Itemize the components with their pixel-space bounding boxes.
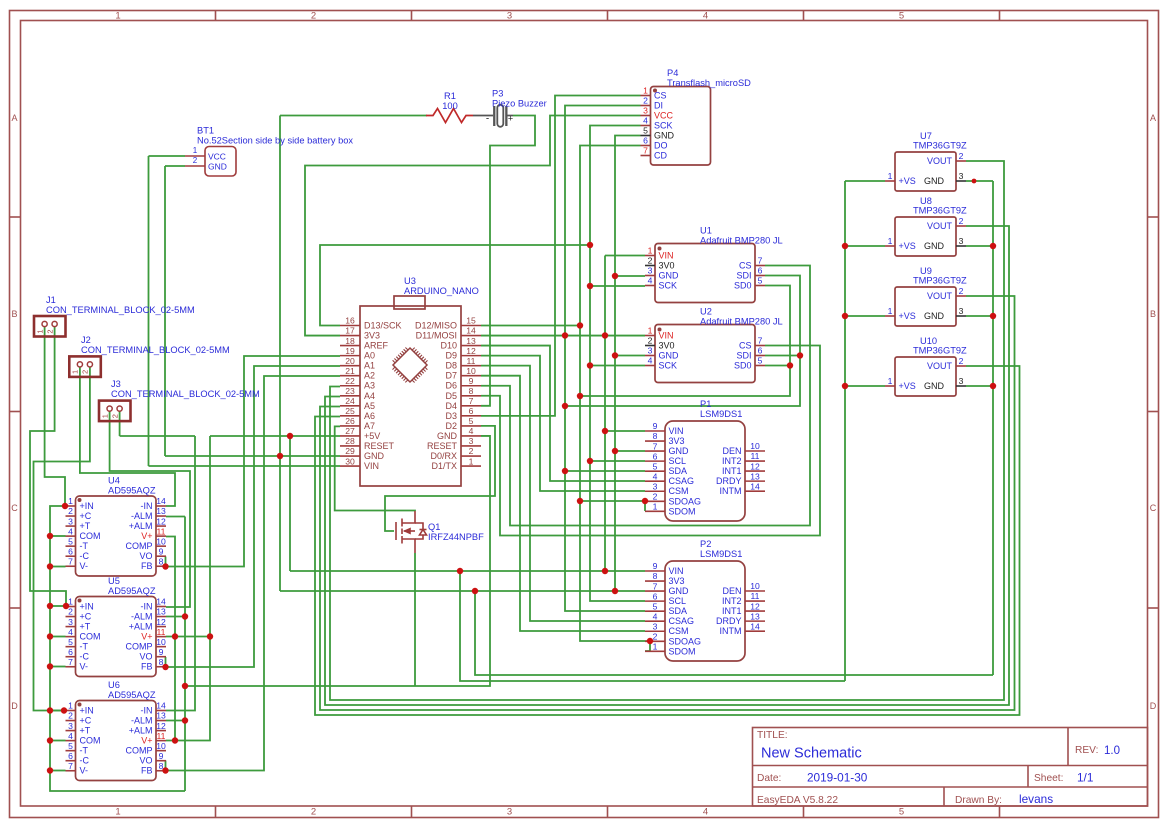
junction bbox=[842, 243, 848, 249]
svg-text:10: 10 bbox=[466, 366, 476, 376]
P2 LSM9DS1 body bbox=[665, 561, 745, 661]
U2 pin 6 SDI bbox=[755, 355, 765, 357]
junction bbox=[162, 563, 168, 569]
svg-text:3: 3 bbox=[469, 436, 474, 446]
svg-text:INT2: INT2 bbox=[722, 596, 742, 606]
svg-text:D5: D5 bbox=[445, 391, 457, 401]
svg-text:2: 2 bbox=[643, 96, 648, 106]
svg-text:LSM9DS1: LSM9DS1 bbox=[700, 409, 742, 419]
U4 pin 3 +T bbox=[66, 525, 76, 527]
svg-text:11: 11 bbox=[157, 731, 166, 741]
U6 pin 8 FB bbox=[156, 770, 166, 772]
P2 pin 5 SDA bbox=[645, 610, 665, 612]
svg-text:DEN: DEN bbox=[722, 586, 741, 596]
svg-text:12: 12 bbox=[750, 461, 760, 471]
svg-text:12: 12 bbox=[156, 617, 166, 627]
wire GND row to P2.GND bbox=[280, 590, 645, 592]
svg-text:U6: U6 bbox=[108, 680, 120, 690]
svg-text:6: 6 bbox=[758, 346, 763, 356]
wire U2.SD0 tap bbox=[765, 365, 790, 367]
svg-text:FB: FB bbox=[141, 662, 153, 672]
U3 pin 29 GND bbox=[340, 455, 360, 457]
svg-text:4: 4 bbox=[648, 356, 653, 366]
U3 pin 10 D7 bbox=[461, 375, 481, 377]
wire V+ bus bbox=[166, 537, 175, 741]
junction bbox=[182, 683, 188, 689]
svg-text:+ALM: +ALM bbox=[129, 622, 153, 632]
svg-text:A4: A4 bbox=[364, 391, 375, 401]
svg-text:AD595AQZ: AD595AQZ bbox=[108, 690, 156, 700]
U5 pin 5 -T bbox=[66, 646, 76, 648]
svg-text:12: 12 bbox=[156, 516, 166, 526]
svg-text:2: 2 bbox=[648, 336, 653, 346]
U3 pin 24 A5 bbox=[340, 405, 360, 407]
svg-text:CS: CS bbox=[739, 261, 752, 271]
svg-text:P2: P2 bbox=[700, 539, 711, 549]
U1 pin 6 SDI bbox=[755, 275, 765, 277]
svg-text:6: 6 bbox=[643, 136, 648, 146]
svg-text:+IN: +IN bbox=[80, 602, 94, 612]
svg-text:4: 4 bbox=[653, 611, 658, 621]
svg-text:1: 1 bbox=[653, 502, 658, 512]
svg-text:GND: GND bbox=[924, 381, 945, 391]
U3 pin 19 A0 bbox=[340, 355, 360, 357]
svg-text:Adafruit BMP280 JL: Adafruit BMP280 JL bbox=[700, 317, 783, 327]
svg-text:+VS: +VS bbox=[899, 241, 916, 251]
svg-text:2: 2 bbox=[959, 216, 964, 226]
svg-text:INT2: INT2 bbox=[722, 456, 742, 466]
junction bbox=[612, 352, 618, 358]
U3 usb connector rect bbox=[394, 296, 425, 309]
U4 pin 13 -ALM bbox=[156, 515, 166, 517]
wire D9 to P1.CSM bbox=[481, 356, 645, 491]
svg-text:GND: GND bbox=[659, 271, 680, 281]
svg-text:D2: D2 bbox=[445, 421, 457, 431]
wire U1.VIN tap bbox=[605, 255, 645, 257]
svg-text:2: 2 bbox=[311, 11, 316, 22]
svg-text:11: 11 bbox=[751, 591, 760, 601]
svg-text:SDOAG: SDOAG bbox=[669, 636, 702, 646]
svg-text:13: 13 bbox=[156, 711, 166, 721]
svg-text:RESET: RESET bbox=[364, 441, 395, 451]
wire J3.1 to U5.-IN bbox=[110, 411, 190, 607]
svg-text:11: 11 bbox=[157, 526, 166, 536]
svg-text:DI: DI bbox=[654, 101, 663, 111]
svg-text:2: 2 bbox=[45, 329, 54, 333]
svg-text:LSM9DS1: LSM9DS1 bbox=[700, 549, 742, 559]
svg-text:+5V: +5V bbox=[364, 431, 380, 441]
P2 pin 14 INTM bbox=[745, 630, 765, 632]
svg-text:CS: CS bbox=[739, 341, 752, 351]
svg-text:GND: GND bbox=[659, 351, 680, 361]
svg-text:D13/SCK: D13/SCK bbox=[364, 321, 402, 331]
svg-text:17: 17 bbox=[345, 326, 355, 336]
svg-text:16: 16 bbox=[345, 316, 355, 326]
svg-text:A0: A0 bbox=[364, 351, 375, 361]
U3 pin 8 D5 bbox=[461, 395, 481, 397]
junction bbox=[457, 568, 463, 574]
svg-text:SDI: SDI bbox=[736, 351, 751, 361]
junction bbox=[182, 613, 188, 619]
wire +5V branch down bbox=[289, 436, 291, 571]
svg-text:-T: -T bbox=[80, 541, 89, 551]
svg-text:U7: U7 bbox=[920, 131, 932, 141]
U9 pin 3 GND bbox=[956, 315, 966, 317]
svg-text:D11/MOSI: D11/MOSI bbox=[416, 331, 457, 341]
svg-text:3: 3 bbox=[648, 346, 653, 356]
svg-text:7: 7 bbox=[758, 336, 763, 346]
wire TMP GND tap bbox=[966, 180, 993, 182]
svg-text:-ALM: -ALM bbox=[131, 716, 153, 726]
U5 pin 8 FB bbox=[156, 666, 166, 668]
svg-text:J2: J2 bbox=[81, 335, 91, 345]
U2 pin 7 CS bbox=[755, 345, 765, 347]
svg-text:28: 28 bbox=[345, 436, 355, 446]
svg-text:10: 10 bbox=[750, 581, 760, 591]
junction bbox=[207, 633, 213, 639]
BT1 pin 1 VCC bbox=[185, 155, 205, 157]
svg-text:GND: GND bbox=[924, 311, 945, 321]
wire +VS tap bbox=[845, 385, 885, 387]
svg-text:VOUT: VOUT bbox=[927, 221, 953, 231]
U7 pin 3 GND bbox=[956, 180, 966, 182]
svg-text:2: 2 bbox=[469, 446, 474, 456]
svg-text:2: 2 bbox=[648, 256, 653, 266]
svg-text:14: 14 bbox=[156, 701, 166, 711]
svg-text:4: 4 bbox=[68, 627, 73, 637]
wire U7.VOUT to A3 bbox=[330, 161, 1004, 700]
junction bbox=[47, 633, 53, 639]
svg-text:VOUT: VOUT bbox=[927, 361, 953, 371]
BT1 pin 2 GND bbox=[185, 165, 205, 167]
svg-text:+T: +T bbox=[80, 622, 91, 632]
U8 pin 3 GND bbox=[956, 245, 966, 247]
svg-text:13: 13 bbox=[750, 471, 760, 481]
wire +VS tap bbox=[845, 315, 885, 317]
wire U10.VOUT to A6 bbox=[315, 366, 1020, 715]
svg-text:CD: CD bbox=[654, 151, 667, 161]
junction bbox=[797, 352, 803, 358]
wire TMP GND bus vertical bbox=[992, 181, 994, 675]
svg-text:29: 29 bbox=[345, 446, 355, 456]
svg-text:1: 1 bbox=[653, 642, 658, 652]
U5 pin 3 +T bbox=[66, 626, 76, 628]
wire U6.-ALM tap bbox=[166, 720, 185, 722]
wire +5V row to P2.VIN bbox=[290, 570, 645, 572]
svg-text:+IN: +IN bbox=[80, 706, 94, 716]
svg-text:+T: +T bbox=[80, 521, 91, 531]
junction bbox=[47, 737, 53, 743]
U3 pin 27 +5V bbox=[340, 435, 360, 437]
wire +VS tap bbox=[845, 245, 885, 247]
P1 pin 3 CSM bbox=[645, 490, 665, 492]
svg-text:VO: VO bbox=[139, 652, 152, 662]
svg-text:V+: V+ bbox=[141, 736, 152, 746]
U6 pin 2 +C bbox=[66, 720, 76, 722]
svg-text:COM: COM bbox=[80, 632, 101, 642]
svg-text:3: 3 bbox=[507, 807, 512, 818]
svg-text:1: 1 bbox=[888, 171, 893, 181]
svg-text:INT1: INT1 bbox=[722, 606, 742, 616]
svg-text:Date:: Date: bbox=[757, 773, 781, 784]
svg-text:3: 3 bbox=[68, 617, 73, 627]
junction bbox=[47, 663, 53, 669]
U3 pin 22 A3 bbox=[340, 385, 360, 387]
svg-text:GND: GND bbox=[654, 131, 675, 141]
svg-text:3V0: 3V0 bbox=[659, 261, 675, 271]
wire SD0 bus to U1.SD0 bbox=[580, 286, 790, 397]
svg-text:3: 3 bbox=[959, 236, 964, 246]
svg-text:ARDUINO_NANO: ARDUINO_NANO bbox=[404, 286, 479, 296]
wire D7 to P2.CSM bbox=[481, 376, 645, 631]
junction bbox=[577, 322, 583, 328]
P2 pin 7 GND bbox=[645, 590, 665, 592]
U3 pin 7 D4 bbox=[461, 405, 481, 407]
svg-text:+ALM: +ALM bbox=[129, 726, 153, 736]
svg-text:3: 3 bbox=[643, 106, 648, 116]
svg-text:SDOAG: SDOAG bbox=[669, 496, 702, 506]
svg-text:FB: FB bbox=[141, 561, 153, 571]
junction bbox=[990, 313, 996, 319]
wire GND29 row bbox=[165, 455, 340, 457]
U1 Adafruit BMP280 JL body bbox=[655, 244, 755, 303]
svg-text:10: 10 bbox=[156, 637, 166, 647]
svg-text:6: 6 bbox=[653, 451, 658, 461]
junction bbox=[990, 383, 996, 389]
wire U5.-ALM tap bbox=[166, 616, 185, 618]
svg-text:VCC: VCC bbox=[654, 111, 674, 121]
svg-text:3: 3 bbox=[653, 621, 658, 631]
wire ALM bus bbox=[184, 517, 186, 792]
P1 pin 12 INT1 bbox=[745, 470, 765, 472]
U4 pin 4 COM bbox=[66, 535, 76, 537]
svg-text:3: 3 bbox=[648, 266, 653, 276]
svg-text:-IN: -IN bbox=[141, 501, 153, 511]
U2 Adafruit BMP280 JL body bbox=[655, 325, 755, 383]
P1 pin 6 SCL bbox=[645, 460, 665, 462]
svg-text:VIN: VIN bbox=[659, 331, 674, 341]
U3 pin 6 D3 bbox=[461, 415, 481, 417]
svg-text:14: 14 bbox=[750, 621, 760, 631]
svg-text:COMP: COMP bbox=[126, 642, 153, 652]
U3 pin 11 D8 bbox=[461, 365, 481, 367]
junction bbox=[577, 498, 583, 504]
svg-text:D8: D8 bbox=[445, 361, 457, 371]
svg-text:-IN: -IN bbox=[141, 602, 153, 612]
svg-text:11: 11 bbox=[467, 356, 476, 366]
svg-text:Drawn By:: Drawn By: bbox=[955, 795, 1002, 806]
U4 pin 12 +ALM bbox=[156, 525, 166, 527]
svg-text:7: 7 bbox=[68, 761, 73, 771]
svg-text:TMP36GT9Z: TMP36GT9Z bbox=[913, 141, 967, 151]
svg-text:VIN: VIN bbox=[669, 426, 684, 436]
svg-text:GND: GND bbox=[669, 446, 690, 456]
svg-text:-T: -T bbox=[80, 746, 89, 756]
svg-text:30: 30 bbox=[345, 456, 355, 466]
U3 pin 12 D9 bbox=[461, 355, 481, 357]
wire rail tap bbox=[50, 605, 66, 607]
svg-text:19: 19 bbox=[345, 346, 355, 356]
svg-text:2: 2 bbox=[311, 807, 316, 818]
P4 pin 1 CS bbox=[641, 95, 651, 97]
svg-text:9: 9 bbox=[159, 546, 164, 556]
svg-text:6: 6 bbox=[469, 406, 474, 416]
P4 pin 3 VCC bbox=[641, 115, 651, 117]
U1 pin 1 VIN bbox=[645, 255, 655, 257]
U4 pin 6 -C bbox=[66, 555, 76, 557]
svg-text:-C: -C bbox=[80, 756, 90, 766]
svg-text:8: 8 bbox=[653, 571, 658, 581]
U5 pin 6 -C bbox=[66, 656, 76, 658]
svg-text:P1: P1 bbox=[700, 399, 711, 409]
svg-text:1: 1 bbox=[71, 370, 80, 374]
U8 TMP36GT9Z body bbox=[895, 217, 956, 256]
junction bbox=[287, 433, 293, 439]
svg-text:7: 7 bbox=[469, 396, 474, 406]
svg-text:4: 4 bbox=[703, 11, 708, 22]
svg-text:COMP: COMP bbox=[126, 746, 153, 756]
svg-text:9: 9 bbox=[159, 751, 164, 761]
P2 pin 13 DRDY bbox=[745, 620, 765, 622]
wire D6 to U1.CS bbox=[481, 266, 810, 526]
U10 pin 3 GND bbox=[956, 385, 966, 387]
svg-text:7: 7 bbox=[68, 556, 73, 566]
svg-text:23: 23 bbox=[345, 386, 355, 396]
wire SDI bus to U1.SDI bbox=[565, 276, 800, 407]
svg-text:VIN: VIN bbox=[659, 251, 674, 261]
svg-text:1: 1 bbox=[100, 414, 109, 418]
P1 pin 2 SDOAG bbox=[645, 500, 665, 502]
svg-text:5: 5 bbox=[68, 741, 73, 751]
wire rail tap bbox=[50, 666, 66, 668]
svg-text:21: 21 bbox=[345, 366, 355, 376]
junction bbox=[612, 448, 618, 454]
svg-text:A6: A6 bbox=[364, 411, 375, 421]
svg-text:+T: +T bbox=[80, 726, 91, 736]
svg-text:A3: A3 bbox=[364, 381, 375, 391]
P4 pin1 marker bbox=[653, 89, 657, 93]
svg-text:2: 2 bbox=[68, 607, 73, 617]
svg-text:5: 5 bbox=[899, 11, 904, 22]
U3 pin 30 VIN bbox=[340, 465, 360, 467]
wire MOSI bus P4.DI to P2.SDA bbox=[565, 106, 645, 612]
svg-text:6: 6 bbox=[68, 546, 73, 556]
svg-text:2019-01-30: 2019-01-30 bbox=[807, 771, 868, 785]
wire D8 to P2.CSAG bbox=[481, 366, 645, 621]
U3 pin 3 RESET bbox=[461, 445, 481, 447]
wire VIN30 row bbox=[149, 465, 341, 467]
P1 pin 1 SDOM bbox=[645, 510, 665, 512]
svg-text:DO: DO bbox=[654, 141, 668, 151]
wire P1.SDA tap bbox=[565, 470, 645, 472]
wire GND bus P4.GND down bbox=[615, 136, 641, 592]
svg-text:5: 5 bbox=[653, 601, 658, 611]
U5 pin 2 +C bbox=[66, 616, 76, 618]
terminal block J3 bbox=[99, 401, 131, 422]
P2 pin 9 VIN bbox=[645, 570, 665, 572]
svg-text:V+: V+ bbox=[141, 632, 152, 642]
svg-text:4: 4 bbox=[68, 526, 73, 536]
microSD P4 body bbox=[651, 87, 711, 166]
U5 pin 9 VO bbox=[156, 656, 166, 658]
junction bbox=[562, 468, 568, 474]
junction bbox=[577, 393, 583, 399]
svg-text:3: 3 bbox=[959, 306, 964, 316]
svg-text:SCK: SCK bbox=[654, 121, 673, 131]
svg-text:25: 25 bbox=[345, 406, 355, 416]
svg-text:20: 20 bbox=[345, 356, 355, 366]
junction bbox=[47, 767, 53, 773]
U5 pin 4 COM bbox=[66, 636, 76, 638]
junction bbox=[47, 533, 53, 539]
U5 pin 13 -ALM bbox=[156, 616, 166, 618]
svg-text:14: 14 bbox=[156, 597, 166, 607]
svg-text:SCK: SCK bbox=[659, 281, 678, 291]
svg-text:SCL: SCL bbox=[669, 596, 687, 606]
svg-text:INT1: INT1 bbox=[722, 466, 742, 476]
svg-text:U2: U2 bbox=[700, 307, 712, 317]
svg-text:100: 100 bbox=[442, 101, 458, 111]
svg-text:14: 14 bbox=[466, 326, 476, 336]
U4 pin 2 +C bbox=[66, 515, 76, 517]
P1 pin 4 CSAG bbox=[645, 480, 665, 482]
svg-text:D6: D6 bbox=[445, 381, 457, 391]
svg-text:9: 9 bbox=[159, 647, 164, 657]
svg-text:7: 7 bbox=[758, 256, 763, 266]
U9 TMP36GT9Z body bbox=[895, 287, 956, 326]
wire GND to R1 bbox=[280, 115, 427, 117]
svg-text:22: 22 bbox=[345, 376, 355, 386]
svg-text:GND: GND bbox=[924, 176, 945, 186]
wire AD595 common rail bbox=[50, 506, 185, 791]
U5 pin 1 +IN bbox=[66, 606, 76, 608]
wire U5.VO-FB tie bbox=[165, 657, 167, 667]
U9 pin 2 VOUT bbox=[956, 295, 966, 297]
svg-text:7: 7 bbox=[643, 146, 648, 156]
wire U2.SDI tap bbox=[765, 355, 800, 357]
junction bbox=[842, 313, 848, 319]
svg-text:24: 24 bbox=[345, 396, 355, 406]
svg-text:5: 5 bbox=[68, 637, 73, 647]
wire SCK bus P4.SCK to P2.SCL bbox=[590, 126, 645, 602]
svg-text:CSM: CSM bbox=[669, 626, 689, 636]
svg-text:U4: U4 bbox=[108, 476, 120, 486]
svg-text:A: A bbox=[11, 113, 17, 123]
U4 pin 8 FB bbox=[156, 565, 166, 567]
P2 pin 4 CSAG bbox=[645, 620, 665, 622]
U2 pin 1 VIN bbox=[645, 335, 655, 337]
wire +5V row left segment bbox=[120, 435, 195, 437]
svg-text:3: 3 bbox=[959, 376, 964, 386]
wire TMP GND tap bbox=[966, 245, 993, 247]
wire D13/SCK loop bbox=[320, 245, 590, 326]
svg-text:4: 4 bbox=[703, 807, 708, 818]
U3 pin 16 D13/SCK bbox=[340, 325, 360, 327]
junction bbox=[587, 283, 593, 289]
svg-text:2: 2 bbox=[653, 491, 658, 501]
svg-text:+C: +C bbox=[80, 612, 92, 622]
P2 pin 1 SDOM bbox=[645, 650, 665, 652]
svg-text:TMP36GT9Z: TMP36GT9Z bbox=[913, 206, 967, 216]
svg-text:A1: A1 bbox=[364, 361, 375, 371]
U7 pin 1 +VS bbox=[885, 180, 895, 182]
U1 pin 7 CS bbox=[755, 265, 765, 267]
svg-text:-ALM: -ALM bbox=[131, 612, 153, 622]
svg-text:2: 2 bbox=[959, 356, 964, 366]
U6 pin 13 -ALM bbox=[156, 720, 166, 722]
wire U4.VO-FB tie bbox=[165, 557, 167, 567]
wire D5 to U2.CS bbox=[481, 346, 820, 536]
